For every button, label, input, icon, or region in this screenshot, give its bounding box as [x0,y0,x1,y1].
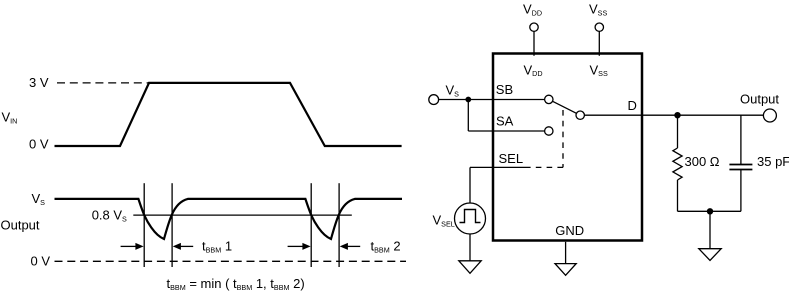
arrow into t2 end [340,243,361,250]
IC box U1 [493,54,642,241]
source VSEL [455,203,486,234]
wire resistor bottom lead [677,180,679,211]
switch pole [576,111,584,119]
wire VDD pin [533,31,535,55]
svg-text:35 pF: 35 pF [757,154,789,169]
svg-text:D: D [628,98,637,113]
wire capacitor bottom lead [740,170,742,211]
resistor 300 ohm [673,148,682,180]
svg-text:SB: SB [496,82,513,97]
svg-text:Output: Output [1,217,40,232]
wire VSEL to ground [469,234,471,261]
wire VS down to SA [467,100,469,132]
switch arm [553,101,577,113]
wire to SA pin [468,130,544,132]
svg-text:SA: SA [496,114,514,129]
terminal Output [763,109,776,122]
dashed control link vertical [562,110,564,167]
svg-text:SEL: SEL [499,151,524,166]
wire SEL pin [470,166,525,168]
VIN waveform [55,83,402,146]
dashed control link horizontal [525,166,563,168]
ground (GND pin) [555,264,576,276]
wire D to Output [584,114,763,116]
terminal VS [429,95,439,105]
switch contact SA [545,127,553,135]
svg-text:300 Ω: 300 Ω [685,154,720,169]
wire RC to ground [709,211,711,248]
svg-text:3 V: 3 V [29,75,49,90]
terminal VSS [595,23,603,31]
capacitor 35 pF [729,165,752,170]
svg-text:0 V: 0 V [29,137,49,152]
junction RC bottom node [707,208,713,214]
svg-text:Output: Output [740,92,779,107]
svg-text:0.8 VS: 0.8 VS [92,208,127,224]
arrow into t1 end [173,243,194,250]
marker line t1 start [143,183,145,267]
pulse symbol [460,210,481,223]
wire RC bottom [678,210,741,212]
terminal VDD [530,23,538,31]
wire VSS pin [598,31,600,55]
wire GND pin [565,242,567,264]
wire capacitor top lead [740,115,742,164]
junction D node [674,112,680,118]
arrow into t2 start [288,243,311,250]
VS output waveform with glitch dips [55,199,403,239]
dashed 0 V line [55,260,407,262]
dashed 3V reference line [57,82,149,84]
arrow into t1 start [121,243,144,250]
svg-text:0 V: 0 V [31,254,51,269]
ground (VSEL) [459,261,481,274]
svg-text:GND: GND [555,223,584,238]
junction VS node [465,97,471,103]
ground (RC) [699,249,721,261]
marker line t2 end [338,183,340,267]
wire VS to SB [439,99,545,101]
wire SEL down to VSEL [469,167,471,203]
marker line t2 start [310,183,312,267]
wire resistor top lead [677,115,679,148]
switch contact SB [545,95,553,103]
marker line t1 end [171,183,173,267]
0.8 VS threshold line [133,214,351,216]
